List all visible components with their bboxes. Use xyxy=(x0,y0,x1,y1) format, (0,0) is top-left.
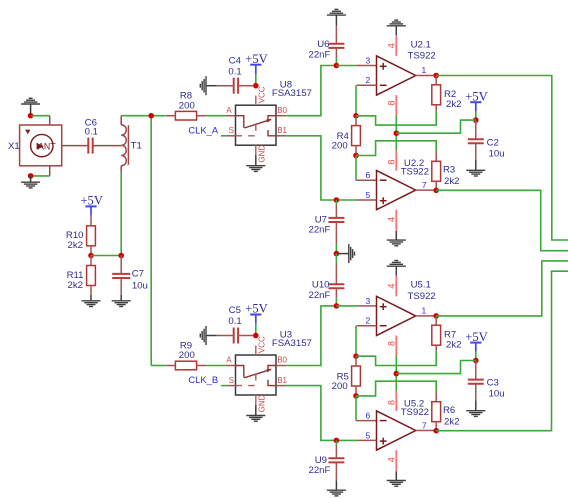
pin wire U10 xyxy=(335,264,337,285)
svg-text:TS922: TS922 xyxy=(401,167,429,178)
svg-text:TS922: TS922 xyxy=(408,50,436,61)
svg-text:CLK_A: CLK_A xyxy=(188,124,218,135)
pin wire R6 xyxy=(435,392,437,402)
pin wire R3 xyxy=(435,181,437,190)
pin wire C3 xyxy=(475,384,477,401)
ground stem xyxy=(206,335,217,337)
svg-text:A: A xyxy=(226,106,232,115)
node bias C7 xyxy=(118,253,124,259)
ground stem xyxy=(475,400,477,411)
node bias xyxy=(88,253,94,259)
pin wire R11 xyxy=(90,256,92,266)
svg-text:4: 4 xyxy=(386,284,396,289)
pin wire R4 xyxy=(355,116,357,126)
node VCC U3 xyxy=(253,333,259,339)
node V+ xyxy=(394,130,400,136)
ground stem xyxy=(255,405,257,416)
plus input mark xyxy=(380,63,387,70)
wire net B0 xyxy=(286,306,336,366)
pin wire C7 xyxy=(120,256,122,274)
svg-text:200: 200 xyxy=(179,350,195,361)
+5V supply xyxy=(245,302,268,324)
wire V+ column xyxy=(395,355,397,391)
analog switch U8 xyxy=(236,105,277,145)
switch control S dashed U3 xyxy=(236,374,256,386)
wire output 4 xyxy=(436,271,568,431)
svg-text:2k2: 2k2 xyxy=(446,339,461,350)
svg-text:22nF: 22nF xyxy=(309,465,331,476)
pin A U3 xyxy=(226,365,236,367)
node noninverting U5.1 xyxy=(334,303,340,309)
svg-text:0.1: 0.1 xyxy=(85,127,98,138)
pin wire C4 xyxy=(217,85,234,87)
wire xyxy=(335,244,337,254)
pin wire U7 xyxy=(335,205,337,218)
node noninverting U2.1 xyxy=(334,63,340,69)
pin 8 U2.1 xyxy=(395,95,397,115)
svg-text:2k2: 2k2 xyxy=(444,176,459,187)
pin 2 U5.1 xyxy=(357,325,377,327)
ground xyxy=(246,166,265,172)
pin 5 U2.2 xyxy=(357,199,377,201)
wire net V+ xyxy=(396,120,476,133)
wire xyxy=(255,324,257,336)
node V+ supply xyxy=(473,117,479,123)
svg-text:8: 8 xyxy=(386,400,396,405)
ground inverted xyxy=(21,98,40,104)
switch contact B0 U8 xyxy=(268,116,276,122)
wire xyxy=(336,199,356,201)
svg-text:C7: C7 xyxy=(132,268,144,279)
svg-text:22nF: 22nF xyxy=(309,225,331,236)
node VCC U8 xyxy=(253,83,259,89)
wire xyxy=(151,365,165,367)
node V+ xyxy=(394,371,400,377)
wire xyxy=(336,65,356,67)
pin 3 U2.1 xyxy=(357,65,377,67)
wire net V+ xyxy=(396,361,476,374)
svg-text:B1: B1 xyxy=(277,376,287,385)
node input A xyxy=(148,113,154,119)
svg-text:2k2: 2k2 xyxy=(68,240,83,251)
svg-text:2k2: 2k2 xyxy=(444,416,459,427)
svg-text:FSA3157: FSA3157 xyxy=(272,338,312,349)
wire xyxy=(336,305,356,307)
pin wire C6 to T1 xyxy=(93,145,122,147)
svg-text:5: 5 xyxy=(365,430,370,440)
node inverting B xyxy=(353,153,359,159)
op-amp U5.1 xyxy=(377,296,416,335)
pin wire U10 xyxy=(335,288,337,298)
node noninverting U2.2 xyxy=(334,197,340,203)
ground stem xyxy=(475,160,477,171)
pin wire R7 xyxy=(435,345,437,351)
ground xyxy=(327,490,346,496)
pin wire U6 xyxy=(335,26,337,44)
ground stem xyxy=(335,15,337,26)
ground stem xyxy=(90,295,92,301)
ground xyxy=(466,170,485,176)
svg-text:2k2: 2k2 xyxy=(68,280,83,291)
switch control S dashed U8 xyxy=(236,124,256,136)
ground stem xyxy=(395,231,397,240)
wire T1 bottom xyxy=(120,172,122,256)
pin wire U9 xyxy=(335,462,337,480)
ground inverted xyxy=(387,261,406,267)
svg-text:4: 4 xyxy=(386,457,396,462)
ground xyxy=(200,76,206,95)
wire output 1 xyxy=(436,76,568,241)
svg-text:TS922: TS922 xyxy=(408,291,436,302)
capacitor C6 xyxy=(88,138,92,154)
switch arrowhead U3 xyxy=(266,369,272,373)
capacitor C2 xyxy=(468,139,484,143)
svg-text:2: 2 xyxy=(365,75,370,85)
switch contact A U8 xyxy=(236,116,244,128)
svg-text:CLK_B: CLK_B xyxy=(188,374,218,385)
resistor R6 xyxy=(432,402,441,422)
ground stem xyxy=(120,295,122,301)
capacitor U9 xyxy=(328,458,344,462)
svg-text:4: 4 xyxy=(386,43,396,48)
node output U2.2 xyxy=(433,188,439,194)
wire main feed xyxy=(150,116,152,366)
ground xyxy=(246,416,265,422)
wire xyxy=(221,135,226,137)
plus input mark xyxy=(380,197,387,204)
svg-text:3: 3 xyxy=(365,296,370,306)
ground stem xyxy=(336,253,348,255)
ground stem xyxy=(395,471,397,480)
svg-text:1: 1 xyxy=(422,65,427,75)
ground stem xyxy=(206,85,217,87)
svg-text:200: 200 xyxy=(179,100,195,111)
wire xyxy=(335,440,337,445)
pin wire C3 xyxy=(475,361,477,380)
pin S U8 xyxy=(226,135,235,137)
ground xyxy=(387,481,406,487)
wire xyxy=(151,115,165,117)
pin 2 U2.1 xyxy=(357,84,377,86)
switch contact B1 U8 xyxy=(268,130,276,136)
capacitor C5 xyxy=(234,328,238,344)
svg-text:C2: C2 xyxy=(487,137,499,148)
pin wire U6 xyxy=(335,48,337,58)
node inverting B xyxy=(353,393,359,399)
svg-text:C3: C3 xyxy=(487,378,499,389)
pin VCC U8 xyxy=(255,96,257,106)
pin wire R7 xyxy=(435,316,437,325)
ground inverted xyxy=(327,9,346,15)
ground xyxy=(200,326,206,345)
svg-text:0.1: 0.1 xyxy=(228,316,241,327)
wire xyxy=(355,396,357,421)
node X1 top xyxy=(28,113,34,119)
svg-text:22nF: 22nF xyxy=(309,290,331,301)
ground xyxy=(21,182,40,188)
+5V supply xyxy=(245,52,268,74)
ground stem xyxy=(395,266,397,276)
ground stem xyxy=(30,104,32,115)
op-amp U2.1 xyxy=(377,56,416,95)
svg-text:200: 200 xyxy=(332,381,348,392)
pin VCC U3 xyxy=(255,345,257,355)
svg-text:2: 2 xyxy=(365,316,370,326)
svg-text:4: 4 xyxy=(386,217,396,222)
pin wire X1 xyxy=(49,116,51,125)
svg-text:8: 8 xyxy=(386,341,396,346)
transformer T1 xyxy=(121,116,128,172)
node inverting U2.1 xyxy=(353,113,359,119)
svg-text:TS922: TS922 xyxy=(401,407,429,418)
capacitor C4 xyxy=(234,78,238,94)
pin GND U8 xyxy=(255,145,257,155)
pin GND U3 xyxy=(255,395,257,405)
svg-text:GND: GND xyxy=(257,394,266,412)
wire xyxy=(355,326,357,357)
capacitor C3 xyxy=(468,380,484,384)
pin wire C2 xyxy=(475,143,477,160)
pin wire R11 xyxy=(90,286,92,295)
svg-text:6: 6 xyxy=(365,411,370,421)
ground stem xyxy=(395,26,397,36)
capacitor U6 xyxy=(328,44,344,48)
node output U5.2 xyxy=(433,428,439,434)
pin wire R5 xyxy=(355,386,357,396)
svg-text:X1: X1 xyxy=(8,141,20,152)
switch arm U3 xyxy=(244,369,271,377)
wire V+ column xyxy=(395,115,397,151)
wire net inverting A xyxy=(356,351,436,366)
ground inverted xyxy=(387,20,406,26)
svg-text:C5: C5 xyxy=(229,305,241,316)
pin wire R3 xyxy=(435,151,437,161)
pin wire C5 xyxy=(238,335,253,337)
svg-text:GND: GND xyxy=(257,145,266,163)
resistor R11 xyxy=(87,266,96,286)
pin S U3 xyxy=(226,385,235,387)
svg-text:2k2: 2k2 xyxy=(446,99,461,110)
node output U2.1 xyxy=(433,73,439,79)
wire xyxy=(475,111,477,120)
node inverting U5.1 xyxy=(353,353,359,359)
wire net inverting A xyxy=(356,111,436,126)
svg-text:VCC: VCC xyxy=(257,336,266,353)
svg-text:A: A xyxy=(226,356,232,365)
wire xyxy=(91,255,121,257)
wire net inverting B xyxy=(356,141,436,156)
pin B0 U8 xyxy=(276,115,286,117)
plus input mark xyxy=(380,438,387,445)
svg-text:10u: 10u xyxy=(489,148,505,159)
pin 1 U2.1 xyxy=(416,75,437,77)
wire xyxy=(221,385,226,387)
svg-text:R3: R3 xyxy=(443,164,455,175)
resistor R5 xyxy=(352,366,361,386)
svg-text:B0: B0 xyxy=(277,106,287,115)
wire T1 top xyxy=(121,115,151,117)
ground xyxy=(82,301,101,307)
pin 1 U5.1 xyxy=(416,315,437,317)
+5V supply xyxy=(465,330,488,352)
wire xyxy=(32,175,50,177)
wire xyxy=(335,298,337,306)
pin wire X1 xyxy=(49,166,51,176)
switch arrowhead U8 xyxy=(266,119,272,123)
svg-text:5: 5 xyxy=(365,190,370,200)
pin 8 U5.2 xyxy=(395,391,397,411)
pin wire R6 xyxy=(435,422,437,431)
svg-text:7: 7 xyxy=(422,421,427,431)
pin wire C5 xyxy=(217,335,234,337)
svg-text:6: 6 xyxy=(365,170,370,180)
pin 4 U5.1 xyxy=(395,276,397,297)
wire output 3 xyxy=(436,261,568,316)
switch contact B1 U3 xyxy=(268,380,276,386)
wire net B0 xyxy=(286,66,336,116)
pin 8 U5.1 xyxy=(395,336,397,356)
pin wire C2 xyxy=(475,120,477,139)
resistor R9 xyxy=(166,361,207,370)
wire xyxy=(355,85,357,116)
capacitor U7 xyxy=(328,218,344,222)
svg-text:10u: 10u xyxy=(132,280,148,291)
svg-text:U2.1: U2.1 xyxy=(411,39,431,50)
pin wire R4 xyxy=(355,146,357,156)
pin 7 U5.2 xyxy=(416,430,437,432)
pin 8 U2.2 xyxy=(395,151,397,171)
pin 4 U2.2 xyxy=(395,210,397,231)
pin 6 U5.2 xyxy=(356,420,377,422)
svg-text:U5.1: U5.1 xyxy=(411,280,431,291)
ground stem xyxy=(335,480,337,490)
svg-text:S: S xyxy=(229,126,234,135)
pin wire C4 xyxy=(238,85,253,87)
node X1 bottom xyxy=(28,173,34,179)
pin B1 U8 xyxy=(276,135,286,137)
svg-text:3: 3 xyxy=(365,55,370,65)
wire xyxy=(335,58,337,66)
wire xyxy=(355,156,357,181)
pin 3 U5.1 xyxy=(357,305,377,307)
wire net B1 xyxy=(286,136,336,200)
svg-text:0.1: 0.1 xyxy=(228,66,241,77)
pin B1 U3 xyxy=(276,385,286,387)
svg-text:8: 8 xyxy=(386,160,396,165)
plus input mark xyxy=(380,303,387,310)
svg-text:R6: R6 xyxy=(443,405,455,416)
svg-text:200: 200 xyxy=(332,141,348,152)
+5V supply xyxy=(80,194,103,216)
svg-text:FSA3157: FSA3157 xyxy=(272,88,312,99)
pin wire U9 xyxy=(335,445,337,458)
svg-text:C4: C4 xyxy=(229,55,242,66)
resistor R8 xyxy=(166,111,207,120)
op-amp U5.2 xyxy=(377,411,416,450)
wire xyxy=(335,254,337,264)
svg-text:VCC: VCC xyxy=(257,86,266,103)
minus input mark xyxy=(380,84,387,86)
capacitor U10 xyxy=(328,284,344,288)
wire xyxy=(206,115,225,117)
pin 4 U5.2 xyxy=(395,450,397,471)
ground stem xyxy=(255,155,257,166)
svg-text:8: 8 xyxy=(386,101,396,106)
svg-text:7: 7 xyxy=(422,180,427,190)
op-amp U2.2 xyxy=(377,171,416,210)
resistor R3 xyxy=(432,161,441,181)
wire xyxy=(335,200,337,205)
pin wire R10 xyxy=(90,246,92,256)
switch contact A U3 xyxy=(236,366,244,378)
connector X1 xyxy=(20,125,62,166)
capacitor C7 xyxy=(112,274,130,278)
pin wire C7 xyxy=(120,278,122,295)
svg-text:22nF: 22nF xyxy=(309,49,331,60)
pin B0 U3 xyxy=(276,365,286,367)
minus input mark xyxy=(380,179,387,181)
ground xyxy=(387,240,406,246)
ground xyxy=(466,411,485,417)
pin wire X1 to C6 xyxy=(62,145,89,147)
pin wire R10 xyxy=(90,216,92,226)
pin 6 U2.2 xyxy=(356,179,377,181)
wire output 2 xyxy=(436,190,568,250)
resistor R4 xyxy=(352,126,361,146)
pin 4 U2.1 xyxy=(395,35,397,56)
pin wire R5 xyxy=(355,356,357,366)
node noninverting U5.2 xyxy=(334,438,340,444)
pin 5 U5.2 xyxy=(357,439,377,441)
node V+ supply xyxy=(473,358,479,364)
svg-text:ANT: ANT xyxy=(38,141,56,151)
wire net B1 xyxy=(286,386,336,441)
svg-text:1: 1 xyxy=(422,306,427,316)
switch contact B0 U3 xyxy=(268,366,276,372)
svg-text:T1: T1 xyxy=(131,141,142,152)
minus input mark xyxy=(380,420,387,422)
wire xyxy=(206,365,225,367)
svg-text:10u: 10u xyxy=(489,389,505,400)
analog switch U3 xyxy=(236,355,277,395)
svg-text:B0: B0 xyxy=(277,356,287,365)
pin 7 U2.2 xyxy=(416,189,437,191)
pin wire R2 xyxy=(435,76,437,85)
minus input mark xyxy=(380,325,387,327)
ground stem xyxy=(30,176,32,182)
pin A U8 xyxy=(226,115,236,117)
resistor R7 xyxy=(432,325,441,345)
node output U5.1 xyxy=(433,313,439,319)
svg-text:S: S xyxy=(229,376,234,385)
pin wire U7 xyxy=(335,222,337,244)
+5V supply xyxy=(465,89,488,111)
ground xyxy=(349,244,355,263)
wire xyxy=(255,74,257,86)
switch arm U8 xyxy=(244,120,271,128)
resistor R10 xyxy=(87,226,96,246)
node mid ground xyxy=(334,251,340,257)
wire net inverting B xyxy=(356,381,436,396)
pin wire R2 xyxy=(435,105,437,111)
wire xyxy=(475,352,477,361)
wire xyxy=(32,115,50,117)
resistor R2 xyxy=(432,85,441,105)
wire xyxy=(336,439,356,441)
svg-text:B1: B1 xyxy=(277,126,287,135)
ground xyxy=(112,301,131,307)
